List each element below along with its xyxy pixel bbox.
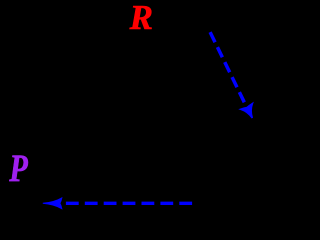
wire: right vertical edge xyxy=(196,33,197,202)
wire: blue dashed diagonal arrow shaft xyxy=(210,32,245,104)
wire: edge from vertex R down-left toward P (black, invisible on flattened bg) xyxy=(62,29,189,110)
arrowhead of diagonal arrow xyxy=(241,104,253,119)
wire: blue dashed horizontal arrow shaft xyxy=(66,202,192,205)
svg-text:P: P xyxy=(8,146,28,189)
svg-text:R: R xyxy=(129,0,153,37)
arrowhead of horizontal arrow xyxy=(43,198,62,209)
wire: short steep edge down to node P xyxy=(43,110,62,155)
wire: short connector at vertex R xyxy=(189,29,235,52)
